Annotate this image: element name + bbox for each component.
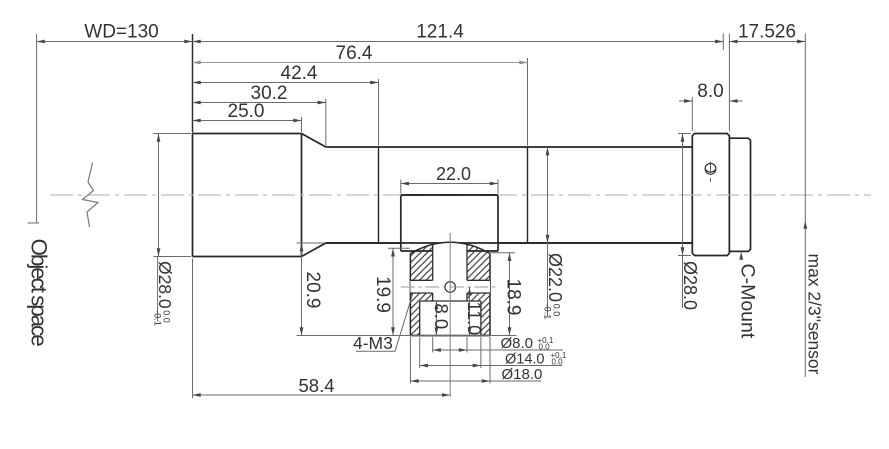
M3 side hole circle	[445, 282, 456, 293]
sensor leader arrow	[803, 221, 807, 229]
svg-text:11.0: 11.0	[464, 302, 484, 336]
M3 cross hole top edge	[410, 279, 432, 281]
svg-text:58.4: 58.4	[299, 375, 335, 396]
C-mount barrel	[729, 138, 750, 251]
svg-text:42.4: 42.4	[281, 63, 318, 84]
ext line 30.2	[325, 99, 327, 146]
ext lines O14 below	[419, 337, 421, 368]
label O22 with tolerance	[542, 253, 565, 319]
ext lines O8 below	[432, 337, 434, 353]
dim 25.0	[193, 120, 302, 122]
svg-text:C-Mount: C-Mount	[737, 264, 759, 339]
svg-text:8.0: 8.0	[431, 304, 452, 330]
mount vertical centerline	[449, 233, 451, 397]
barrel bottom line across block	[326, 242, 693, 244]
dim O28 right	[682, 134, 684, 256]
ext ticks O28 right	[678, 133, 691, 135]
ext line ring left	[691, 97, 693, 131]
dim 22.0	[401, 183, 498, 185]
dim 20.9	[301, 243, 303, 336]
ext line 20.9 top	[297, 242, 325, 244]
dim O28 left line	[158, 134, 160, 257]
bottom ext line	[297, 335, 517, 337]
svg-text:76.4: 76.4	[336, 43, 373, 64]
ext ticks O28 left	[154, 133, 192, 135]
ext line flange face	[728, 34, 730, 132]
ext lines O18 below	[409, 337, 411, 384]
svg-text:Ø28.0: Ø28.0	[155, 261, 175, 309]
ext line 25.0	[301, 117, 303, 132]
svg-text:18.9: 18.9	[503, 279, 524, 316]
barrel edge at 76.4	[527, 147, 529, 243]
dim 58.4	[193, 394, 451, 396]
main barrel O22	[326, 147, 693, 243]
dim WD=130	[37, 41, 193, 43]
svg-text:22.0: 22.0	[436, 164, 471, 184]
barrel edge at 42.4	[378, 147, 380, 243]
clamp block top edge over centerline	[401, 194, 498, 196]
dim 17.526	[729, 41, 805, 43]
mount body outline (section)	[410, 254, 490, 336]
taper cone	[302, 134, 326, 148]
svg-text:Ø18.0: Ø18.0	[502, 366, 543, 383]
clamp block 22 wide	[401, 195, 498, 251]
svg-text:4-M3: 4-M3	[353, 333, 393, 353]
ext line 19.9 top	[388, 247, 410, 249]
svg-text:-0.1: -0.1	[542, 304, 552, 320]
svg-text:121.4: 121.4	[416, 22, 464, 43]
dim 30.2	[193, 102, 326, 104]
svg-text:20.9: 20.9	[302, 272, 323, 309]
ext line 121.4 right	[722, 34, 724, 51]
svg-text:17.526: 17.526	[738, 22, 796, 43]
svg-text:WD=130: WD=130	[84, 22, 158, 43]
svg-text:19.9: 19.9	[372, 276, 393, 313]
sensor plane line	[804, 34, 806, 378]
M3 cross hole bottom edge	[410, 292, 432, 294]
dim 121.4	[193, 41, 724, 43]
dim O8.0 bottom	[433, 349, 563, 351]
label O28 left with tolerance	[153, 261, 176, 326]
dim 19.9	[392, 248, 394, 335]
ext line 76.4	[527, 58, 529, 146]
counterbore O14	[420, 300, 481, 302]
svg-text:Ø8.0: Ø8.0	[501, 335, 534, 352]
ext line WD left	[36, 34, 38, 223]
ext line 42.4	[378, 79, 380, 146]
ext line front face	[192, 34, 194, 133]
svg-text:max 2/3"sensor: max 2/3"sensor	[805, 254, 825, 375]
ext lines 22.0	[400, 180, 402, 194]
rear ring O28	[692, 134, 729, 256]
svg-text:-0.1: -0.1	[153, 310, 163, 326]
dim O22 line	[547, 147, 549, 243]
svg-text:Object space: Object space	[27, 239, 52, 347]
break symbol zigzag on axis	[83, 163, 99, 228]
saddle arc	[410, 242, 490, 253]
ext line 58.4 left	[192, 259, 194, 399]
mount bottom edge	[410, 335, 490, 337]
svg-text:8.0: 8.0	[697, 81, 723, 102]
dim 8.0 counterbore	[435, 301, 437, 336]
dim O18.0 bottom	[410, 380, 541, 382]
dim 76.4	[193, 62, 528, 64]
dim 8.0 ring	[679, 100, 692, 102]
front cylinder O28 body	[193, 134, 302, 257]
dim 11.0	[469, 287, 471, 336]
O8 hole right edge	[466, 244, 468, 280]
svg-text:25.0: 25.0	[228, 101, 265, 122]
dim 42.4	[193, 82, 379, 84]
O8 hole left edge	[432, 244, 434, 280]
C-Mount leader arrow	[739, 252, 743, 260]
optical axis centerline	[50, 194, 871, 196]
set screw circle on ring	[705, 163, 716, 174]
svg-text:0.0: 0.0	[552, 358, 564, 367]
dim O14.0 bottom	[420, 365, 562, 367]
svg-text:Ø22.0: Ø22.0	[545, 253, 565, 302]
svg-text:0.0: 0.0	[539, 342, 551, 351]
M3 hole axis dash-dot	[401, 286, 499, 288]
svg-text:Ø28.0: Ø28.0	[680, 261, 700, 310]
ext line 18.9 top	[491, 252, 516, 254]
dim 18.9	[509, 253, 511, 336]
